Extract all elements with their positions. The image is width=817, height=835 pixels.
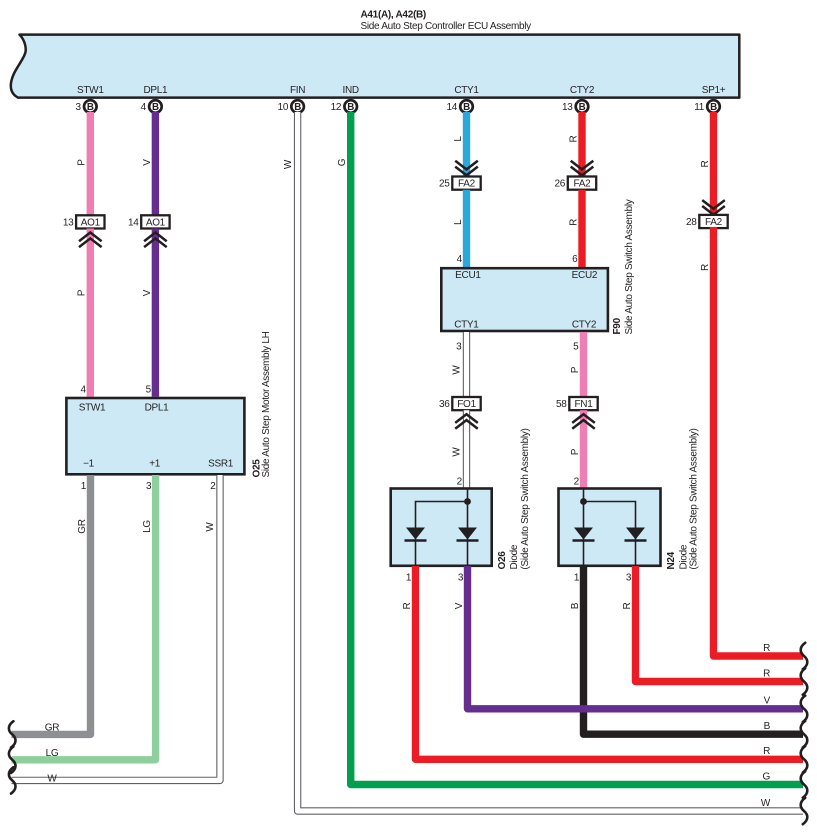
svg-text:4: 4 (457, 254, 463, 265)
svg-text:W: W (283, 159, 294, 169)
svg-text:2: 2 (210, 481, 216, 492)
svg-text:DPL1: DPL1 (145, 403, 170, 414)
svg-text:AO1: AO1 (81, 217, 101, 228)
svg-text:1: 1 (81, 481, 87, 492)
F90 pin number 3 (456, 342, 462, 353)
wire R from pin 11 SP1+ to FA2 (710, 112, 717, 216)
wire color label R (568, 135, 579, 142)
svg-text:IND: IND (343, 85, 359, 96)
svg-text:3: 3 (76, 102, 82, 113)
diode O26 left (405, 528, 427, 541)
svg-text:5: 5 (146, 384, 152, 395)
svg-text:R: R (402, 602, 413, 609)
connector AO1 pin 13 (63, 215, 105, 228)
wire color label L (453, 136, 464, 142)
wire V from AO1 to O25 pin 5 (152, 229, 159, 397)
wire P from FN1 to N24 pin 2 (580, 410, 587, 487)
wire color label P (to N24) (570, 448, 581, 455)
svg-text:V: V (764, 696, 771, 707)
svg-text:F90: F90 (612, 317, 623, 334)
N24 name label assembly (689, 428, 700, 569)
wire GR from O25 pin 1 to left break (12, 475, 91, 734)
wire color label R (N24-3) (622, 602, 633, 609)
wire color label R (lower) (568, 219, 579, 226)
svg-text:B: B (347, 102, 354, 113)
wire R from SP1+ FA2 to right break (714, 227, 804, 656)
svg-text:B: B (152, 102, 159, 113)
svg-text:CTY1: CTY1 (454, 85, 479, 96)
svg-text:R: R (700, 160, 711, 167)
F90 pin number 4 (457, 254, 463, 265)
svg-text:58: 58 (556, 399, 567, 410)
wire color label R (O26-1) (402, 602, 413, 609)
svg-text:GR: GR (77, 519, 88, 533)
svg-text:P: P (570, 448, 581, 455)
wire B from N24 pin 1 to right break (584, 566, 804, 734)
svg-text:V: V (454, 602, 465, 609)
wire color label G (bottom right) (763, 771, 771, 782)
O26 pin number 2 (457, 476, 463, 487)
wire W from F90 CTY1 to FO1 (463, 332, 470, 397)
diode O26 right (457, 528, 479, 541)
F90 pin number 6 (572, 254, 578, 265)
svg-text:SSR1: SSR1 (208, 459, 234, 470)
break symbol B wire (801, 721, 808, 747)
wire color label LG (vertical) (142, 520, 153, 533)
label R third right (763, 746, 770, 757)
wire V from pin 4 DPL1 to connector AO1 (152, 112, 159, 216)
connector FA2 pin 25 (439, 177, 481, 190)
wire G from pin 12 IND to right break (351, 112, 803, 785)
svg-text:B: B (87, 102, 94, 113)
connector FA2 pin 26 (554, 177, 596, 190)
svg-text:1: 1 (574, 572, 580, 583)
O25 Side Auto Step Motor Assembly LH box (66, 398, 244, 474)
chevron arrows into FA2-25 (down) (455, 161, 478, 176)
pin 11 (SP1+) connector B (694, 100, 720, 113)
wire color label GR (horizontal) (45, 722, 59, 733)
label R top right (763, 643, 770, 654)
svg-text:CTY1: CTY1 (454, 320, 479, 331)
wire color label P (77, 159, 88, 166)
svg-text:W: W (47, 773, 57, 784)
svg-text:P: P (77, 159, 88, 166)
svg-text:3: 3 (458, 572, 464, 583)
svg-text:LG: LG (142, 520, 153, 533)
svg-text:Side Auto Step Switch Assembly: Side Auto Step Switch Assembly (624, 199, 635, 334)
node junction dot N24 (580, 498, 587, 505)
wire color label W (horizontal) (47, 773, 57, 784)
svg-text:V: V (142, 289, 153, 296)
svg-text:L: L (453, 219, 464, 225)
wire color label L (lower) (453, 219, 464, 225)
svg-text:R: R (763, 643, 770, 654)
wire color label LG (horizontal) (46, 748, 59, 759)
label V right (764, 696, 771, 707)
N24 internal wire from pin 2 (583, 489, 585, 566)
pin 10 (FIN) connector B (278, 100, 304, 113)
chevron arrows into FA2-28 (down) (702, 200, 725, 215)
label B right (764, 721, 771, 732)
svg-text:10: 10 (278, 102, 289, 113)
break symbol V wire (801, 696, 808, 722)
O26 designator label (497, 551, 508, 570)
svg-text:W: W (452, 447, 463, 457)
svg-text:14: 14 (446, 102, 457, 113)
connector FN1 pin 58 (556, 397, 598, 410)
wire LG from O25 pin 3 to left break (12, 475, 156, 760)
svg-text:(Side Auto Step Switch Assembl: (Side Auto Step Switch Assembly) (520, 428, 531, 569)
wire P from AO1 to O25 pin 4 (87, 229, 94, 397)
wire R from O26 pin 1 to right break (416, 566, 804, 759)
svg-text:R: R (568, 135, 579, 142)
svg-text:FO1: FO1 (457, 399, 476, 410)
wire color label V (142, 159, 153, 166)
svg-text:1: 1 (406, 572, 412, 583)
connector AO1 pin 14 (128, 215, 170, 228)
svg-text:13: 13 (562, 102, 573, 113)
F90 designator label (612, 317, 623, 334)
svg-text:2: 2 (574, 476, 580, 487)
diode N24 right (625, 528, 647, 541)
connector FA2 pin 28 (686, 215, 728, 228)
svg-text:W: W (205, 522, 216, 532)
wire color label G on IND wire (337, 158, 348, 166)
svg-text:B: B (570, 602, 581, 609)
break symbol GR wire (9, 721, 16, 747)
O26 diode box (391, 489, 492, 566)
node junction dot O26 (464, 498, 471, 505)
break symbol W wire left (9, 767, 16, 793)
wire color label GR (vertical) (77, 519, 88, 533)
O25 pin number 4 (81, 384, 87, 395)
svg-text:5: 5 (573, 342, 579, 353)
break symbol R wire (N24-3) (801, 668, 808, 694)
svg-text:P: P (77, 289, 88, 296)
chevron arrows into AO1 (up) (79, 233, 102, 248)
svg-text:B: B (463, 102, 470, 113)
N24 pin number 2 (574, 476, 580, 487)
wire color label W (to O26) (452, 447, 463, 457)
svg-text:Diode: Diode (509, 544, 520, 569)
wire P from F90 CTY2 to FN1 (580, 332, 587, 397)
svg-text:P: P (570, 366, 581, 373)
O25 pin number 5 (146, 384, 152, 395)
svg-text:V: V (142, 159, 153, 166)
wire color label W (bottom right) (761, 798, 771, 809)
break symbol G wire (801, 771, 808, 797)
wire W from pin 10 FIN to right break (298, 112, 803, 811)
diode N24 left (573, 528, 595, 541)
svg-text:LG: LG (46, 748, 59, 759)
svg-text:DPL1: DPL1 (143, 85, 168, 96)
svg-text:2: 2 (457, 476, 463, 487)
svg-text:FIN: FIN (290, 85, 305, 96)
ECU pin name labels STW1 DPL1 FIN IND CTY1 CTY2 SP1+ (77, 85, 726, 96)
svg-text:4: 4 (141, 102, 147, 113)
wire V from O26 pin 3 to right break (468, 566, 804, 709)
wire color label P (F90) (570, 366, 581, 373)
O26 internal wire from pin 2 (467, 489, 469, 566)
svg-text:W: W (761, 798, 771, 809)
svg-text:B: B (710, 102, 717, 113)
N24 diode box (559, 489, 661, 566)
svg-text:R: R (622, 602, 633, 609)
label R second right (763, 668, 770, 679)
svg-text:14: 14 (128, 217, 139, 228)
wire W from FO1 to O26 pin 2 (463, 410, 470, 487)
svg-text:B: B (764, 721, 771, 732)
svg-text:4: 4 (81, 384, 87, 395)
chevron arrows into FO1 (up) (455, 414, 478, 429)
F90 pin number 5 (573, 342, 579, 353)
wire color label R (SP1+ lower) (700, 264, 711, 271)
break symbol LG wire (9, 747, 16, 773)
pin 12 (IND) connector B (331, 100, 357, 113)
N24 internal branch wire (584, 502, 636, 566)
ECU assembly title A41(A), A42(B) (361, 10, 532, 33)
svg-text:11: 11 (694, 102, 705, 113)
svg-text:R: R (568, 219, 579, 226)
svg-text:G: G (763, 771, 771, 782)
O25 name label (261, 331, 272, 477)
svg-text:13: 13 (63, 217, 74, 228)
chevron arrows into FN1 (up) (572, 414, 595, 429)
N24 name label Diode (678, 544, 689, 569)
wire color label P (lower) (77, 289, 88, 296)
break symbol R wire (O26-1) (801, 746, 808, 772)
N24 lower pin numbers 1 3 (574, 572, 632, 583)
svg-text:26: 26 (554, 179, 565, 190)
wire L from FA2 to F90 pin 4 (463, 190, 470, 267)
svg-text:−1: −1 (83, 459, 95, 470)
O26 name label Diode (509, 544, 520, 569)
svg-text:STW1: STW1 (77, 85, 104, 96)
break symbol W wire right (801, 798, 808, 824)
svg-text:W: W (452, 365, 463, 375)
pin 3 (STW1) connector B (76, 100, 97, 113)
wire color label V (lower) (142, 289, 153, 296)
svg-text:(Side Auto Step Switch Assembl: (Side Auto Step Switch Assembly) (689, 428, 700, 569)
svg-text:3: 3 (146, 481, 152, 492)
svg-text:STW1: STW1 (79, 403, 106, 414)
pin 14 (CTY1) connector B (446, 100, 472, 113)
wire W from O25 pin 2 SSR1 to left break (12, 475, 221, 780)
svg-text:Side Auto Step Motor Assembly: Side Auto Step Motor Assembly LH (261, 331, 272, 477)
O26 name label assembly (520, 428, 531, 569)
svg-text:36: 36 (439, 399, 450, 410)
svg-text:R: R (763, 746, 770, 757)
svg-text:SP1+: SP1+ (702, 85, 726, 96)
svg-text:AO1: AO1 (146, 217, 166, 228)
svg-text:3: 3 (626, 572, 632, 583)
F90 Side Auto Step Switch Assembly box (441, 268, 608, 331)
pin 13 (CTY2) connector B (562, 100, 588, 113)
wire color label W (F90) (452, 365, 463, 375)
svg-text:12: 12 (331, 102, 342, 113)
svg-text:FA2: FA2 (458, 179, 476, 190)
svg-text:6: 6 (572, 254, 578, 265)
O25 designator label (251, 459, 262, 478)
svg-text:B: B (294, 102, 301, 113)
svg-text:R: R (700, 264, 711, 271)
svg-text:ECU2: ECU2 (572, 270, 598, 281)
svg-text:A41(A), A42(B): A41(A), A42(B) (361, 10, 426, 21)
wire R from N24 pin 3 to right break (636, 566, 804, 682)
svg-text:FN1: FN1 (575, 399, 594, 410)
ECU box A41/A42 Side Auto Step Controller ECU Assembly (11, 35, 739, 98)
chevron arrows into AO1-14 (up) (144, 233, 167, 248)
svg-text:+1: +1 (149, 459, 161, 470)
wire color label R (SP1+) (700, 160, 711, 167)
svg-text:O26: O26 (497, 551, 508, 570)
pin 4 (DPL1) connector B (141, 100, 162, 113)
svg-text:FA2: FA2 (705, 217, 723, 228)
wire color label B (vertical) (570, 602, 581, 609)
O26 internal branch wire (416, 502, 468, 566)
F90 name label (624, 199, 635, 334)
wire L from pin 14 CTY1 to FA2 (463, 112, 470, 177)
svg-text:L: L (453, 136, 464, 142)
svg-text:3: 3 (456, 342, 462, 353)
svg-text:25: 25 (439, 179, 450, 190)
break symbol R wire (SP1+) (801, 643, 808, 669)
O25 lower pin numbers 1 3 2 (81, 481, 217, 492)
wire color label W on FIN wire (283, 159, 294, 169)
svg-text:FA2: FA2 (574, 179, 592, 190)
wire R from FA2 to F90 pin 6 (578, 190, 585, 267)
svg-text:B: B (579, 102, 586, 113)
N24 designator label (666, 551, 677, 569)
svg-text:G: G (337, 158, 348, 166)
wire color label V (O26-3) (454, 602, 465, 609)
O26 lower pin numbers 1 3 (406, 572, 464, 583)
svg-text:Side Auto Step Controller ECU: Side Auto Step Controller ECU Assembly (361, 21, 532, 32)
svg-text:GR: GR (45, 722, 59, 733)
svg-text:N24: N24 (666, 551, 677, 569)
wire color label W (vertical) (205, 522, 216, 532)
svg-text:28: 28 (686, 217, 697, 228)
chevron arrows into FA2-26 (down) (571, 161, 594, 176)
wire P from pin 3 STW1 to connector AO1 (87, 112, 94, 216)
svg-text:R: R (763, 668, 770, 679)
svg-text:ECU1: ECU1 (455, 270, 481, 281)
svg-text:CTY2: CTY2 (572, 320, 597, 331)
wire R from pin 13 CTY2 to FA2 (578, 112, 585, 177)
svg-text:CTY2: CTY2 (570, 85, 595, 96)
connector FO1 pin 36 (439, 397, 481, 410)
